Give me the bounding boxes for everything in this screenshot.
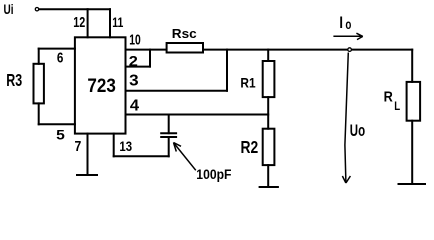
svg-text:R1: R1 <box>240 75 255 91</box>
svg-text:Rsc: Rsc <box>172 26 197 41</box>
wire output corner down to RL <box>411 50 413 82</box>
svg-text:I: I <box>339 14 343 32</box>
wire Rsc to RL corner <box>204 49 412 51</box>
svg-text:R: R <box>384 90 394 106</box>
wire pin 2 <box>126 66 151 68</box>
wire pin 2 riser <box>149 50 151 67</box>
wire R1 to R2 <box>267 97 269 129</box>
ground R2 <box>260 186 278 188</box>
arrow to capacitor 100pF <box>174 144 196 171</box>
wire capacitor top lead <box>168 115 170 134</box>
svg-text:4: 4 <box>130 97 139 114</box>
wire R2 bottom lead <box>267 165 269 187</box>
wire R3 top lead <box>38 49 40 64</box>
wire R3 bottom lead <box>38 103 40 124</box>
wire pin 11 leg <box>109 9 111 37</box>
svg-text:L: L <box>394 101 400 113</box>
wire pin 3 <box>126 90 228 92</box>
svg-text:R3: R3 <box>6 70 22 90</box>
arrow Io <box>333 35 362 37</box>
svg-text:3: 3 <box>129 73 139 90</box>
svg-text:2: 2 <box>129 53 138 70</box>
resistor R3 <box>34 64 44 104</box>
wire capacitor bottom lead <box>168 138 170 156</box>
arrow Uo <box>345 53 348 183</box>
resistor R1 <box>263 61 275 97</box>
wire pin 5 <box>39 123 75 125</box>
wire pin 13 to capacitor <box>114 155 169 157</box>
svg-text:6: 6 <box>57 49 64 66</box>
svg-text:12: 12 <box>73 14 85 31</box>
svg-text:R2: R2 <box>241 137 259 157</box>
wire R1 top lead <box>267 50 269 61</box>
node output o <box>348 48 352 52</box>
wire Ui input to top box <box>40 8 111 10</box>
svg-text:10: 10 <box>129 31 141 48</box>
svg-text:100pF: 100pF <box>196 166 232 182</box>
node input terminal <box>35 8 38 11</box>
svg-text:7: 7 <box>75 139 82 155</box>
svg-text:o: o <box>345 16 351 32</box>
wire pin 6 <box>39 48 75 50</box>
wire pin 13 down <box>113 134 115 157</box>
ground RL <box>399 183 426 185</box>
wire pin 7 lead <box>87 134 89 175</box>
resistor R2 <box>263 129 275 165</box>
resistor RL <box>407 82 421 121</box>
wire pin 10 to Rsc <box>126 49 167 51</box>
wire pin 3 riser <box>226 50 228 91</box>
svg-text:11: 11 <box>112 14 123 30</box>
wire pin 12 leg <box>87 9 89 37</box>
resistor Rsc <box>167 43 203 53</box>
op-amp U1 IC 723 body <box>75 37 126 133</box>
ground pin 7 <box>77 174 97 176</box>
capacitor C1 100pF bottom plate <box>161 136 176 138</box>
wire pin 4 <box>126 114 269 116</box>
svg-text:13: 13 <box>119 138 132 154</box>
capacitor C1 100pF top plate <box>161 132 176 134</box>
wire RL bottom lead <box>411 121 413 184</box>
svg-text:723: 723 <box>87 76 115 97</box>
svg-text:Ui: Ui <box>4 1 14 17</box>
svg-text:5: 5 <box>56 127 65 142</box>
svg-text:Uo: Uo <box>350 122 365 140</box>
